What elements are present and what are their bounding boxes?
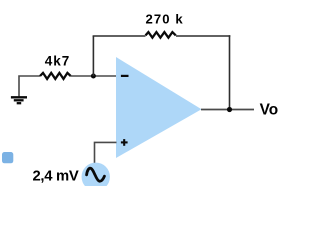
svg-text:Vo: Vo <box>260 102 279 119</box>
pin marker plus <box>121 139 128 146</box>
wire: feedback top left segment <box>93 35 146 37</box>
wire: feedback top right segment <box>176 35 230 37</box>
resistor R2 270 k <box>146 32 176 38</box>
node: output junction <box>227 107 232 112</box>
node: inverting input junction <box>91 74 96 79</box>
svg-text:270 k: 270 k <box>146 12 184 27</box>
wire: 4k7 to op-amp inverting input <box>71 75 117 77</box>
source V1 sine wave <box>87 168 105 181</box>
svg-text:2,4 mV: 2,4 mV <box>33 168 79 184</box>
pin marker minus <box>121 75 129 77</box>
wire: non-inverting input to source <box>95 142 117 163</box>
wire: ground stub to 4k7 left lead <box>19 76 40 97</box>
svg-text:4k7: 4k7 <box>45 54 71 69</box>
wire: op-amp output <box>201 109 254 111</box>
source V1 circle <box>82 163 110 191</box>
op-amp U1 <box>116 57 202 158</box>
resistor R1 4k7 <box>40 73 71 79</box>
wire: feedback right vertical <box>229 35 231 109</box>
wire: feedback left vertical <box>92 36 94 76</box>
logo mark <box>2 152 13 163</box>
ground <box>11 97 27 103</box>
